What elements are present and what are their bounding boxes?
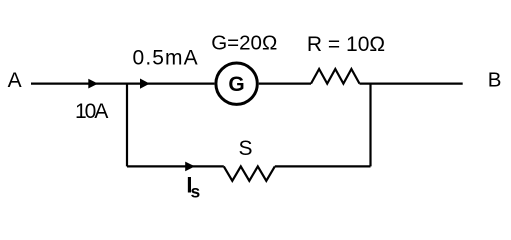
arrowhead Is — [185, 162, 195, 172]
wire bottom left — [127, 165, 224, 167]
wire galvanometer to resistor R — [259, 82, 311, 84]
arrowhead 10A — [88, 79, 98, 89]
wire A to galvanometer — [31, 82, 214, 84]
wire bottom right — [275, 165, 371, 167]
svg-text:10A: 10A — [75, 100, 108, 123]
resistor S (shunt) — [224, 166, 275, 180]
arrowhead 0.5mA — [140, 79, 150, 89]
wire resistor R to B — [360, 82, 463, 84]
svg-text:G=20Ω: G=20Ω — [211, 32, 277, 55]
svg-text:S: S — [238, 137, 252, 160]
resistor R — [311, 69, 360, 84]
svg-text:R = 10Ω: R = 10Ω — [307, 33, 385, 56]
svg-text:A: A — [8, 69, 22, 92]
svg-text:s: s — [191, 182, 201, 202]
galvanometer G (U1) — [216, 63, 257, 104]
wire left vertical branch — [126, 84, 128, 167]
wire right vertical branch — [369, 84, 371, 167]
svg-text:B: B — [488, 68, 502, 91]
svg-text:G: G — [228, 73, 244, 96]
svg-text:0.5mA: 0.5mA — [133, 47, 199, 70]
